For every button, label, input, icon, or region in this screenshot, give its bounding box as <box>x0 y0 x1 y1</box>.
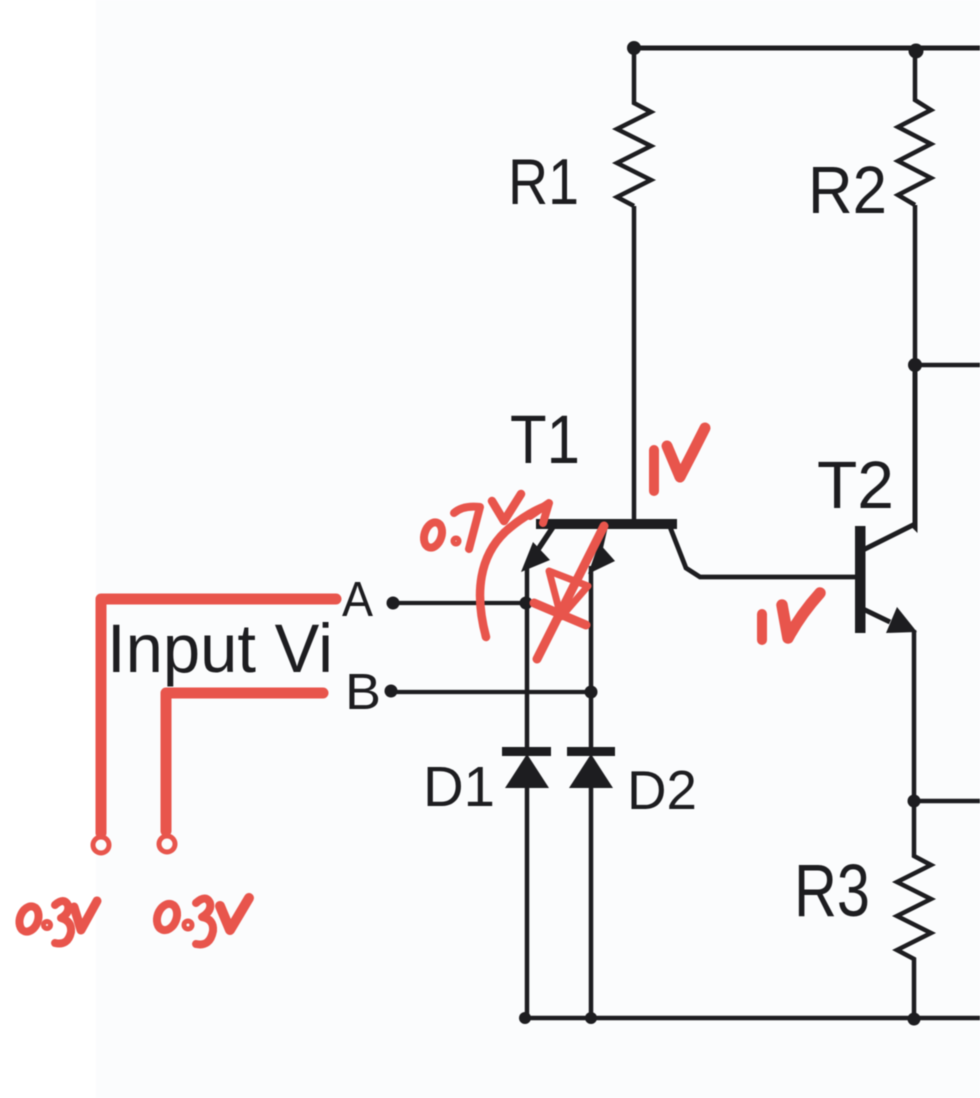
diode D2 <box>567 747 615 788</box>
resistor R2 <box>898 48 931 205</box>
wire T1 collector to T2 base <box>670 527 856 577</box>
wire node B to diode D2 <box>589 692 594 750</box>
svg-text:R3: R3 <box>794 849 870 932</box>
transistor T1 <box>521 519 677 574</box>
wire T1 emitter 2 to node B <box>589 566 594 692</box>
svg-text:D2: D2 <box>627 759 697 821</box>
annotation red crossed diode on T1 emitter 2 <box>537 526 604 659</box>
junction dot R3 bottom <box>908 1013 921 1026</box>
svg-text:A: A <box>342 573 373 627</box>
svg-text:Input Vi: Input Vi <box>107 610 333 687</box>
junction dot node A <box>520 597 533 610</box>
transistor T2 <box>855 526 917 633</box>
wire T1 emitter 1 to node A <box>525 566 530 603</box>
diode D1 <box>502 747 551 788</box>
wire R2 bottom to output node <box>913 205 918 365</box>
junction dot D2 bottom <box>585 1012 597 1024</box>
annotation red arrow to T1 base <box>480 506 546 637</box>
annotation red probe lead A <box>101 599 336 833</box>
wire diode D1 to ground rail <box>525 786 530 1018</box>
svg-text:B: B <box>345 663 381 720</box>
svg-text:T1: T1 <box>510 401 580 478</box>
terminal dot A <box>387 597 400 610</box>
junction dot R2 top <box>909 44 924 59</box>
wire emitter node to right edge <box>914 799 980 804</box>
resistor R1 <box>617 48 651 206</box>
annotation 0.3V at probe A <box>16 901 97 944</box>
annotation 0.7V at T1 base <box>421 494 521 550</box>
wire T2 emitter lead <box>912 630 917 801</box>
wire top supply rail <box>632 46 980 51</box>
svg-text:R1: R1 <box>508 145 579 218</box>
junction dot R1 top <box>627 41 641 55</box>
wire input B <box>394 690 591 694</box>
svg-text:D1: D1 <box>423 755 495 819</box>
wire bottom ground rail <box>525 1016 980 1021</box>
junction dot emitter/R3 node <box>908 795 921 808</box>
svg-text:R2: R2 <box>808 153 887 228</box>
wire input A <box>396 601 526 605</box>
annotation 1V at T2 base <box>757 614 767 640</box>
annotation 1V near T1 collector <box>649 450 659 491</box>
wire R1 bottom to T1 base <box>632 206 637 522</box>
junction dot node B <box>585 686 598 699</box>
wire diode D2 to ground rail <box>589 786 594 1018</box>
junction dot D1 bottom <box>519 1012 531 1024</box>
wire output node to right edge <box>915 363 980 368</box>
wire T2 collector lead <box>863 366 915 550</box>
svg-text:T2: T2 <box>817 448 894 523</box>
resistor R3 <box>897 801 931 1018</box>
junction dot output node <box>908 358 922 372</box>
terminal dot B <box>385 685 398 698</box>
annotation 0.3V at probe B <box>153 898 249 944</box>
annotation red probe lead B <box>166 693 323 831</box>
wire output node to T2 collector <box>913 365 918 527</box>
wire node A to diode D1 <box>525 603 530 750</box>
